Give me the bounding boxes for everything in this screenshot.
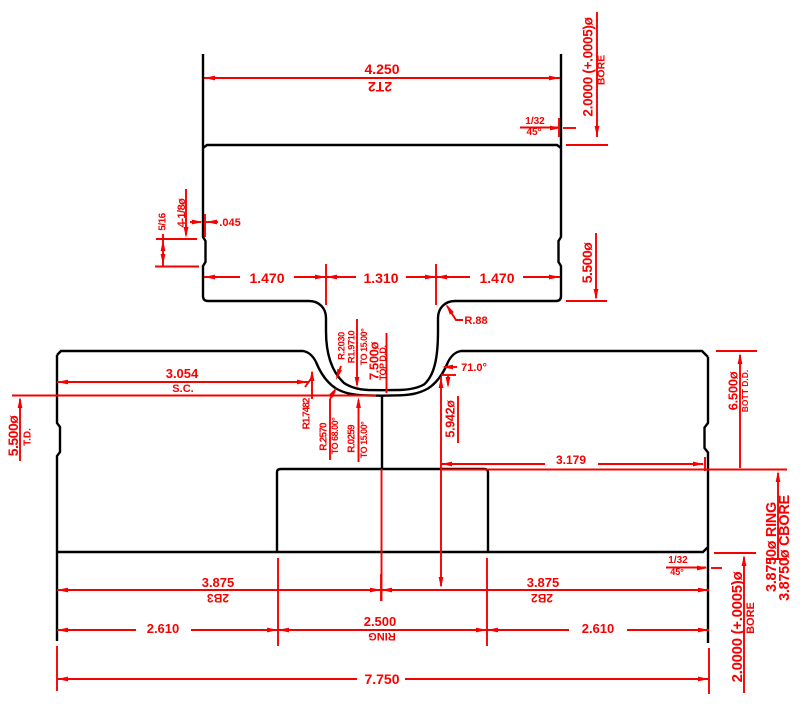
svg-text:5.942ø: 5.942ø [443,400,457,438]
svg-text:RING: RING [368,630,396,642]
center seam line [381,396,383,470]
svg-text:2B2: 2B2 [531,591,553,605]
extension ticks [325,264,327,305]
dim 2.610 left [57,629,136,631]
svg-text:T.D.: T.D. [23,428,34,446]
svg-text:3.054: 3.054 [166,366,199,381]
svg-text:45°: 45° [526,127,541,138]
svg-text:1/32: 1/32 [525,116,545,127]
svg-text:R1.7482: R1.7482 [302,397,313,429]
svg-text:.045: .045 [219,217,240,229]
svg-text:2.0000 (+.0005)ø: 2.0000 (+.0005)ø [729,571,746,683]
dim 2.610 right [487,629,569,631]
dim 7.750 [57,678,357,680]
dim 3.8750 ring/cbore [777,473,779,558]
upper die 2T2 outline [203,54,561,390]
svg-text:1/32: 1/32 [668,555,688,566]
svg-text:5.500ø: 5.500ø [579,242,595,284]
lower die left edge [57,355,60,641]
dim 3.179 [441,463,545,465]
svg-text:4.250: 4.250 [364,61,399,77]
dim 5.500 dia T.D. left [19,399,21,461]
dim 1.470 right [436,276,470,278]
svg-text:S.C.: S.C. [172,383,193,395]
ring plane reference line [441,469,787,471]
svg-text:3.8750ø CBORE: 3.8750ø CBORE [777,495,793,601]
svg-text:BORE: BORE [596,55,608,85]
dim 5.500 dia right [566,300,607,302]
dim 5.942 dia [440,377,442,586]
dim 3.054 S.C. [57,381,308,383]
svg-text:5/16: 5/16 [158,212,169,230]
svg-text:1.310: 1.310 [363,270,398,286]
dim 1.470 left [204,276,240,278]
dim 2.0000 bore top [596,12,598,137]
svg-text:7.750: 7.750 [364,671,399,687]
svg-text:45°: 45° [670,567,684,577]
dim 4.250 / 2T2 [204,77,560,79]
svg-text:1.470: 1.470 [249,270,284,286]
svg-text:3.875: 3.875 [202,575,235,590]
svg-text:2B3: 2B3 [207,591,229,605]
svg-text:3.875: 3.875 [527,575,560,590]
svg-text:5.500ø: 5.500ø [5,415,21,457]
dim 6.500 dia bott d.d. [716,350,757,352]
lower die top profile with nest curve [57,351,708,396]
svg-text:R.2570: R.2570 [319,422,330,451]
lower die right edge [705,357,709,643]
svg-text:R.0259: R.0259 [347,424,358,453]
dim .045 notch [190,221,201,223]
svg-text:2.0000 (+.0005)ø: 2.0000 (+.0005)ø [581,16,596,116]
T.D. reference line [12,395,376,397]
radius R.88 [446,304,454,315]
upper die top face [203,145,561,148]
dim 3.875 2B3 [57,589,381,591]
svg-text:6.500ø: 6.500ø [726,371,741,410]
svg-text:2.610: 2.610 [147,621,180,636]
dim 2.0000 bore bottom [714,552,756,554]
svg-text:2T2: 2T2 [368,79,392,95]
svg-text:TO 68.00°: TO 68.00° [330,417,340,454]
dim 3.875 2B2 [381,589,709,591]
svg-text:71.0°: 71.0° [461,362,487,374]
svg-text:TO 15.00°: TO 15.00° [359,421,369,458]
dim 2.500 ring [278,629,487,631]
extension lines bottom [277,558,279,646]
svg-text:2.500: 2.500 [364,614,397,629]
svg-text:2.610: 2.610 [582,621,615,636]
angle 71.0 [444,366,457,368]
svg-text:R.88: R.88 [464,315,487,327]
svg-text:R1.9710: R1.9710 [346,331,357,364]
svg-text:BORE: BORE [745,602,757,634]
svg-text:BOTT D.D.: BOTT D.D. [740,370,750,413]
dim 1.310 [326,276,356,278]
lower die bottom face [57,547,708,552]
svg-text:1.470: 1.470 [479,270,514,286]
svg-text:3.179: 3.179 [556,453,586,467]
ring boss [277,469,488,552]
